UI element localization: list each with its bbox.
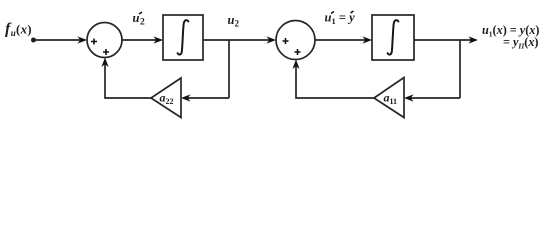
summing junction S1 — [87, 23, 122, 58]
junction tap T2 on U2 output — [459, 40, 461, 98]
wire: summer S1 to integrator U1 — [122, 39, 157, 41]
gain block A11 (triangle) — [374, 78, 404, 118]
integrator block U1 — [163, 15, 203, 60]
plus sign S2 bottom input — [295, 49, 301, 55]
wire: gain A11 to summer S2 bottom — [296, 66, 374, 98]
integral sign U2 — [388, 20, 399, 54]
integrator block U2 — [372, 15, 414, 60]
wire: summer S2 to integrator U2 — [315, 39, 366, 41]
wire: tap T1 to gain A22 — [186, 97, 229, 99]
integral sign U1 — [178, 20, 189, 54]
plus sign S1 bottom input — [103, 49, 109, 55]
wire: gain A22 to summer S1 bottom — [105, 64, 151, 98]
wire: tap T2 to gain A11 — [409, 97, 460, 99]
junction tap T1 on U1 output — [228, 40, 230, 98]
gain block A22 (triangle) — [151, 78, 181, 118]
wire: input node to summer S1 — [34, 39, 82, 41]
input node dot — [31, 38, 36, 43]
plus sign S2 left input — [283, 38, 289, 44]
svg-text:fu(x): fu(x) — [5, 21, 32, 39]
plus sign S1 left input — [91, 39, 97, 45]
summing junction S2 — [276, 21, 315, 60]
wire: integrator U1 to summer S2 — [203, 39, 270, 41]
wire: integrator U2 to output — [414, 39, 472, 41]
